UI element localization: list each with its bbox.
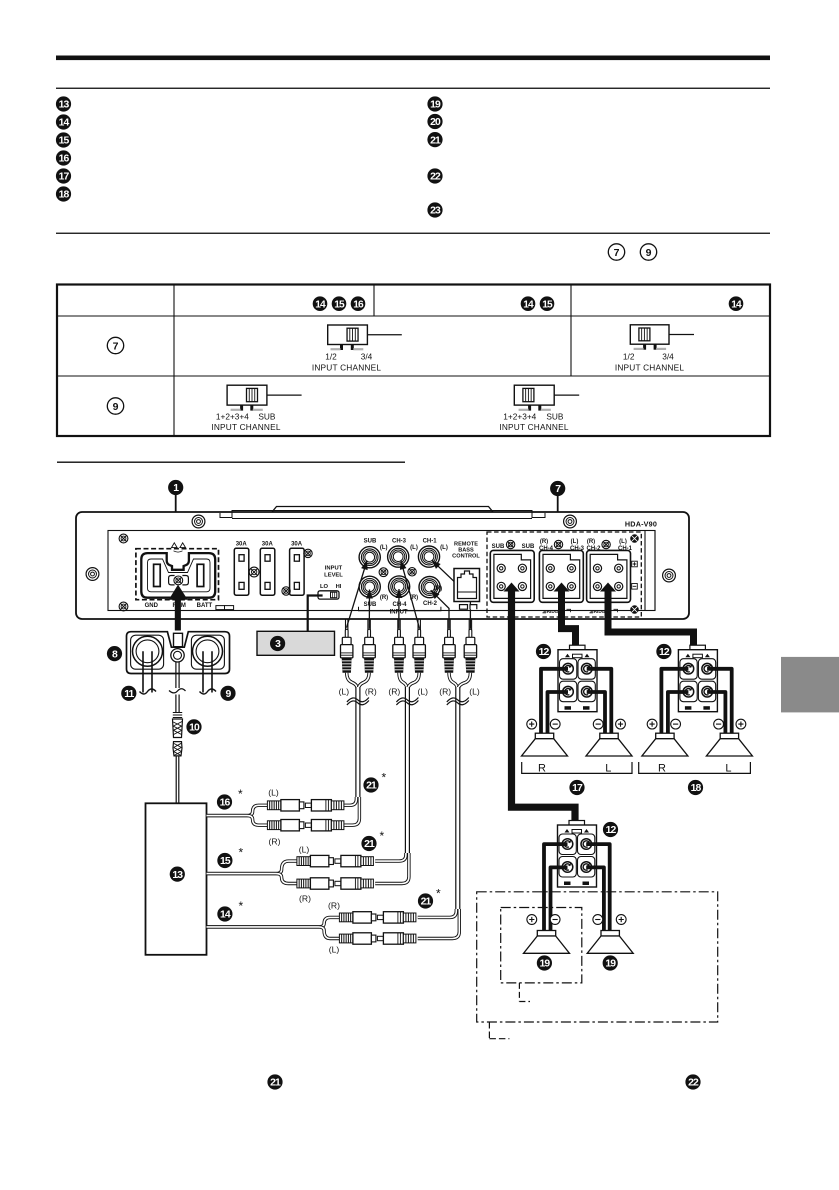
polarity marks 18 (647, 719, 657, 729)
cable break 2 (396, 698, 418, 706)
svg-text:(R): (R) (540, 539, 548, 545)
INPUT LEVEL switch (318, 591, 339, 599)
wire SUB block: arrow + down + right to sub connector (504, 583, 520, 592)
svg-text:LO: LO (320, 584, 329, 590)
inner box exit dashes (519, 983, 530, 1002)
panel corner screw top-left (119, 534, 128, 543)
minus terminal mark (632, 584, 638, 590)
connector block 18 (690, 645, 706, 651)
svg-text:SUB: SUB (492, 544, 505, 550)
leader to gray box 3 (308, 596, 323, 632)
svg-text:HDA-V90: HDA-V90 (625, 520, 657, 529)
callout 14 (56, 114, 71, 129)
callout 19 (603, 955, 618, 970)
svg-text:30A: 30A (291, 542, 303, 548)
conn19 wires to speakers (544, 844, 568, 933)
svg-text:GND: GND (145, 603, 159, 609)
screw between fuses (249, 567, 259, 577)
label plate (216, 606, 234, 610)
svg-text:*: * (238, 787, 243, 801)
callout 22 (685, 1074, 700, 1089)
GND ring (133, 636, 163, 666)
svg-text:21: 21 (366, 781, 377, 792)
RCA input SUB jack L (359, 547, 380, 568)
speaker 17 R (535, 733, 553, 739)
panel screw top-right (564, 515, 577, 528)
power terminal dashed box (136, 549, 219, 600)
svg-text:(R): (R) (328, 901, 340, 911)
svg-text:11: 11 (124, 689, 134, 700)
cable break 3 (447, 698, 469, 706)
callout 12 (603, 822, 618, 837)
svg-text:1+2+3+4: 1+2+3+4 (503, 411, 536, 421)
RJ jack bottom tabs (460, 605, 477, 610)
callout 13 (170, 867, 185, 882)
fuse 30A #2 (260, 548, 275, 595)
callout 16 (217, 794, 232, 809)
svg-text:(R): (R) (587, 539, 595, 545)
svg-text:(L): (L) (469, 687, 480, 697)
svg-text:*: * (239, 899, 244, 913)
REM lead pocket (174, 633, 183, 646)
REM arrow (169, 585, 188, 631)
callout 21 (418, 893, 433, 908)
svg-text:(L): (L) (418, 687, 429, 697)
amplifier chassis (76, 512, 689, 619)
REM wire w/ break (176, 662, 179, 689)
callout 14 (217, 906, 232, 921)
Y16 branch R (267, 820, 344, 831)
speaker terminal labels (492, 539, 633, 552)
REM clamp (169, 576, 189, 585)
svg-text:CH-3: CH-3 (392, 539, 407, 545)
REM screw (174, 576, 183, 585)
svg-text:SUB: SUB (522, 544, 535, 550)
BRIDGED labels (543, 609, 612, 614)
svg-text:3/4: 3/4 (361, 351, 373, 361)
corner screw top (630, 534, 639, 543)
power terminal block (141, 553, 215, 598)
callout 13 (56, 96, 71, 111)
gray label box 3 (257, 631, 335, 655)
Y14 branch R (339, 912, 416, 923)
heatsink shelf lines (220, 511, 545, 519)
svg-text:CH-1: CH-1 (423, 539, 438, 545)
svg-text:16: 16 (59, 154, 70, 165)
leader line callout1 (175, 495, 177, 546)
polarity marks 19 (527, 915, 537, 925)
svg-text:12: 12 (606, 825, 617, 836)
fuse holder lower half (173, 742, 182, 756)
svg-text:13: 13 (172, 870, 183, 881)
svg-text:22: 22 (688, 1078, 699, 1089)
callout 7 (outlined) (107, 337, 123, 353)
RCA input CH-4 jack (389, 576, 410, 597)
Y-cable 15 from head unit (207, 861, 297, 874)
svg-text:18: 18 (59, 190, 70, 201)
callout 14 (521, 296, 536, 311)
svg-text:(R): (R) (439, 687, 451, 697)
panel screw right (663, 569, 676, 582)
Y-cable 14 from head unit (207, 917, 340, 927)
callout 16 (56, 150, 71, 165)
callout 9 (outlined) (640, 244, 656, 260)
svg-text:L: L (725, 763, 731, 775)
wire CH3/4 block: arrow + elbow to conn 17 (554, 583, 570, 592)
svg-text:SUB: SUB (364, 539, 377, 545)
mid thin rule (56, 233, 770, 234)
callout 19 (537, 955, 552, 970)
screw between input jacks (379, 568, 388, 577)
svg-text:7: 7 (614, 247, 620, 259)
speaker 18 R (656, 733, 674, 739)
input-channel switch row9 col2 (227, 385, 302, 410)
leader line callout7 (557, 496, 559, 533)
svg-text:10: 10 (189, 723, 200, 734)
callout 21 (363, 777, 378, 792)
callout 19 (427, 96, 442, 111)
svg-text:CH-4: CH-4 (392, 602, 407, 608)
svg-text:SUB: SUB (546, 411, 564, 421)
svg-text:R: R (658, 763, 666, 775)
callout 10 (186, 719, 201, 734)
RCA plug SUB R into amp (363, 619, 375, 658)
callout 14 (313, 296, 328, 311)
Y-cable 16 from head unit (207, 805, 268, 815)
SUB terminal block (490, 550, 534, 602)
polarity marks 17 (527, 719, 537, 729)
Y15 branch R (297, 878, 374, 889)
wire to head unit (176, 756, 179, 803)
GND ring pad (131, 635, 164, 669)
svg-text:14: 14 (731, 299, 742, 310)
terminal screw CH1/2 (602, 540, 610, 548)
svg-text:(L): (L) (299, 845, 310, 855)
callout 7 (outlined) (608, 244, 624, 260)
outer dash-dot enclosure (477, 892, 718, 1022)
svg-text:CONTROL: CONTROL (452, 554, 480, 560)
terminal screw SUB (506, 540, 514, 548)
callout 21 (267, 1074, 282, 1089)
callout 9 (outlined) (107, 398, 123, 414)
arrow cable5 to CH-2 jack (431, 590, 449, 628)
svg-text:15: 15 (59, 136, 70, 147)
panel screw top-left (192, 515, 205, 528)
amplifier top fin tab (272, 507, 493, 513)
fuse 30A #1 (234, 548, 249, 595)
svg-text:*: * (239, 846, 244, 860)
callout 23 (427, 202, 442, 217)
speaker 17 L (600, 733, 618, 739)
svg-text:30A: 30A (262, 542, 274, 548)
callout 11 (121, 686, 136, 701)
CH1-2 terminal block (587, 550, 631, 602)
conn18 wires to speakers (661, 669, 688, 735)
RCA input CH-1 jack (418, 546, 439, 567)
svg-text:13: 13 (59, 100, 70, 111)
arrow cable1 to SUB L jack (347, 561, 368, 628)
svg-text:SUB: SUB (364, 602, 377, 608)
remote bass control RJ jack (454, 569, 480, 602)
svg-text:21: 21 (364, 839, 375, 850)
callout 18 (688, 780, 703, 795)
svg-text:12: 12 (539, 647, 550, 658)
head unit box (13) (146, 803, 207, 955)
svg-text:21: 21 (270, 1078, 281, 1089)
callout 3 (270, 636, 285, 651)
callout 1 (168, 480, 183, 495)
svg-text:14: 14 (220, 910, 231, 921)
svg-text:(R): (R) (434, 586, 442, 592)
callout 21 (427, 132, 442, 147)
svg-text:(R): (R) (365, 687, 377, 697)
RCA input CH-3 jack (388, 546, 409, 567)
svg-text:18: 18 (691, 783, 702, 794)
bracket 18 (639, 762, 751, 773)
recessed rear panel (108, 531, 655, 611)
svg-text:7: 7 (113, 340, 119, 352)
connector block 19 (569, 821, 585, 827)
Y14 branch L (339, 933, 416, 944)
svg-text:SUB: SUB (258, 411, 276, 421)
svg-text:22: 22 (430, 172, 441, 183)
warning triangles (172, 543, 186, 552)
svg-text:INPUT CHANNEL: INPUT CHANNEL (499, 422, 568, 432)
svg-text:*: * (380, 829, 385, 843)
panel corner screw bottom-left (119, 602, 128, 611)
input-channel switch row9 col3 (514, 385, 579, 410)
svg-text:INPUT CHANNEL: INPUT CHANNEL (615, 363, 684, 373)
svg-text:LEVEL: LEVEL (324, 573, 343, 579)
subwoofer L (537, 931, 555, 937)
svg-text:14: 14 (315, 299, 326, 310)
speaker terminals dashed box (487, 532, 641, 617)
svg-text:9: 9 (646, 247, 652, 259)
RCA plug CH-4 R into amp (393, 619, 405, 658)
arrow cable4 to CH-3 jack (401, 560, 420, 628)
callout 17 (56, 168, 71, 183)
callout 8 (107, 646, 122, 661)
svg-text:*: * (382, 771, 387, 785)
callout 20 (427, 114, 442, 129)
panel screw left (86, 568, 99, 581)
svg-text:17: 17 (59, 172, 70, 183)
svg-text:(L): (L) (410, 545, 418, 551)
BATT ring (193, 636, 223, 666)
right end-cap strip (644, 531, 646, 611)
callout 22 (427, 168, 442, 183)
svg-text:L: L (605, 763, 611, 775)
svg-text:(L): (L) (440, 545, 448, 551)
svg-text:(L): (L) (329, 945, 340, 955)
svg-text:30A: 30A (236, 542, 248, 548)
RCA plug CH-2 R into amp (443, 619, 455, 658)
INPUT bracket (359, 607, 441, 611)
callout 15 (56, 132, 71, 147)
svg-text:(R): (R) (388, 687, 400, 697)
svg-text:(L): (L) (619, 539, 627, 545)
corner screw bottom (630, 605, 639, 614)
callout 21 (361, 836, 376, 851)
svg-text:(R): (R) (269, 837, 281, 847)
svg-text:16: 16 (353, 299, 364, 310)
header thin rule (56, 88, 770, 89)
svg-text:21: 21 (421, 897, 432, 908)
svg-text:HI: HI (336, 584, 342, 590)
svg-text:CH-2: CH-2 (423, 601, 438, 607)
svg-text:(R): (R) (380, 595, 388, 601)
RCA input CH-2 jack (419, 577, 440, 598)
jack labels (364, 539, 448, 609)
arrow cable2 to SUB R jack (368, 590, 370, 629)
svg-text:BATT: BATT (197, 603, 213, 609)
REMOTE BASS CONTROL label (452, 542, 480, 560)
svg-text:1/2: 1/2 (623, 351, 635, 361)
speaker 18 L (720, 733, 738, 739)
outer box exit dashes (489, 1022, 509, 1039)
BATT ring pad (191, 635, 224, 669)
svg-text:INPUT CHANNEL: INPUT CHANNEL (211, 422, 280, 432)
arrow cable6 to CH-1 jack (432, 560, 471, 628)
svg-text:20: 20 (430, 117, 441, 128)
svg-text:*: * (436, 887, 441, 901)
svg-text:19: 19 (430, 100, 441, 111)
top thick rule (56, 56, 770, 61)
Y15 branch L (297, 855, 374, 866)
svg-text:(L): (L) (380, 545, 388, 551)
cable CH1/2 pair down (449, 673, 458, 690)
wire CH1/2 block: arrow + elbow to conn 18 (600, 583, 616, 592)
fuse 30A #3 (290, 548, 305, 595)
callout 17 (569, 780, 584, 795)
svg-text:14: 14 (59, 118, 70, 129)
bracket 17 (522, 762, 632, 773)
cable SUB pair down (347, 673, 358, 690)
cable break 1 (347, 698, 369, 706)
svg-text:(L): (L) (268, 788, 279, 798)
GND wire (143, 651, 152, 692)
CH3-4 terminal block (539, 550, 583, 602)
svg-text:1+2+3+4: 1+2+3+4 (216, 411, 249, 421)
plug labels (339, 687, 480, 697)
svg-text:9: 9 (113, 401, 119, 413)
terminal screw CH3/4 (554, 540, 562, 548)
svg-text:23: 23 (430, 206, 441, 217)
ring terminal housing (127, 632, 230, 674)
fuse holder (10) (173, 713, 183, 738)
svg-text:R: R (538, 763, 546, 775)
svg-text:(L): (L) (339, 687, 350, 697)
svg-text:(L): (L) (571, 539, 579, 545)
section heading underline (57, 462, 405, 463)
subwoofer R (601, 931, 619, 937)
svg-text:17: 17 (572, 783, 583, 794)
svg-text:21: 21 (430, 135, 441, 146)
screw fuse3 top (304, 549, 312, 557)
power terminal block inner line (148, 559, 211, 592)
callout 16 (351, 296, 366, 311)
svg-text:14: 14 (523, 299, 534, 310)
svg-text:19: 19 (540, 959, 551, 970)
Y16 branch L (267, 800, 344, 811)
conn17 wires to speakers (541, 669, 568, 735)
settings table grid (57, 285, 770, 437)
page tab gray box (781, 657, 839, 713)
BATT slot (197, 564, 204, 586)
connector block 17 (570, 645, 586, 651)
screw right of jacks (408, 568, 416, 576)
callout 15 (217, 853, 232, 868)
callout 12 (656, 644, 671, 659)
callout 7 (550, 481, 565, 496)
callout 18 (56, 186, 71, 201)
arrow cable3 to CH-4 jack (398, 589, 400, 629)
callout 15 (540, 296, 555, 311)
plus terminal mark (632, 561, 638, 567)
RCA plug CH-3 L into amp (413, 619, 425, 658)
RCA plug CH-1 L into amp (464, 619, 476, 658)
callout 14 (729, 296, 744, 311)
svg-text:16: 16 (220, 798, 231, 809)
svg-text:15: 15 (542, 299, 553, 310)
svg-text:1/2: 1/2 (325, 351, 337, 361)
screw fuse3 bottom (282, 587, 290, 595)
cable CH3/4 pair down (399, 673, 407, 690)
RCA input SUB jack R (359, 576, 380, 597)
input-channel switch row7 ch1/2-3/4 (328, 325, 402, 350)
callout 9 (220, 686, 235, 701)
input-channel switch row7 col4 (630, 325, 694, 350)
svg-text:(R): (R) (299, 894, 311, 904)
REM small circle (171, 649, 184, 662)
callout 15 (332, 296, 347, 311)
GND slot (154, 564, 161, 586)
svg-text:INPUT: INPUT (325, 566, 343, 572)
svg-text:15: 15 (334, 299, 345, 310)
BATT wire (203, 651, 212, 692)
svg-text:INPUT CHANNEL: INPUT CHANNEL (312, 363, 381, 373)
svg-text:3/4: 3/4 (662, 351, 674, 361)
svg-text:12: 12 (659, 647, 670, 658)
inner dash-dot enclosure (501, 908, 582, 983)
RCA plug SUB L into amp (341, 619, 353, 658)
svg-text:15: 15 (220, 856, 231, 867)
svg-text:19: 19 (605, 959, 616, 970)
INPUT LEVEL labels (320, 566, 343, 591)
callout 12 (536, 644, 551, 659)
